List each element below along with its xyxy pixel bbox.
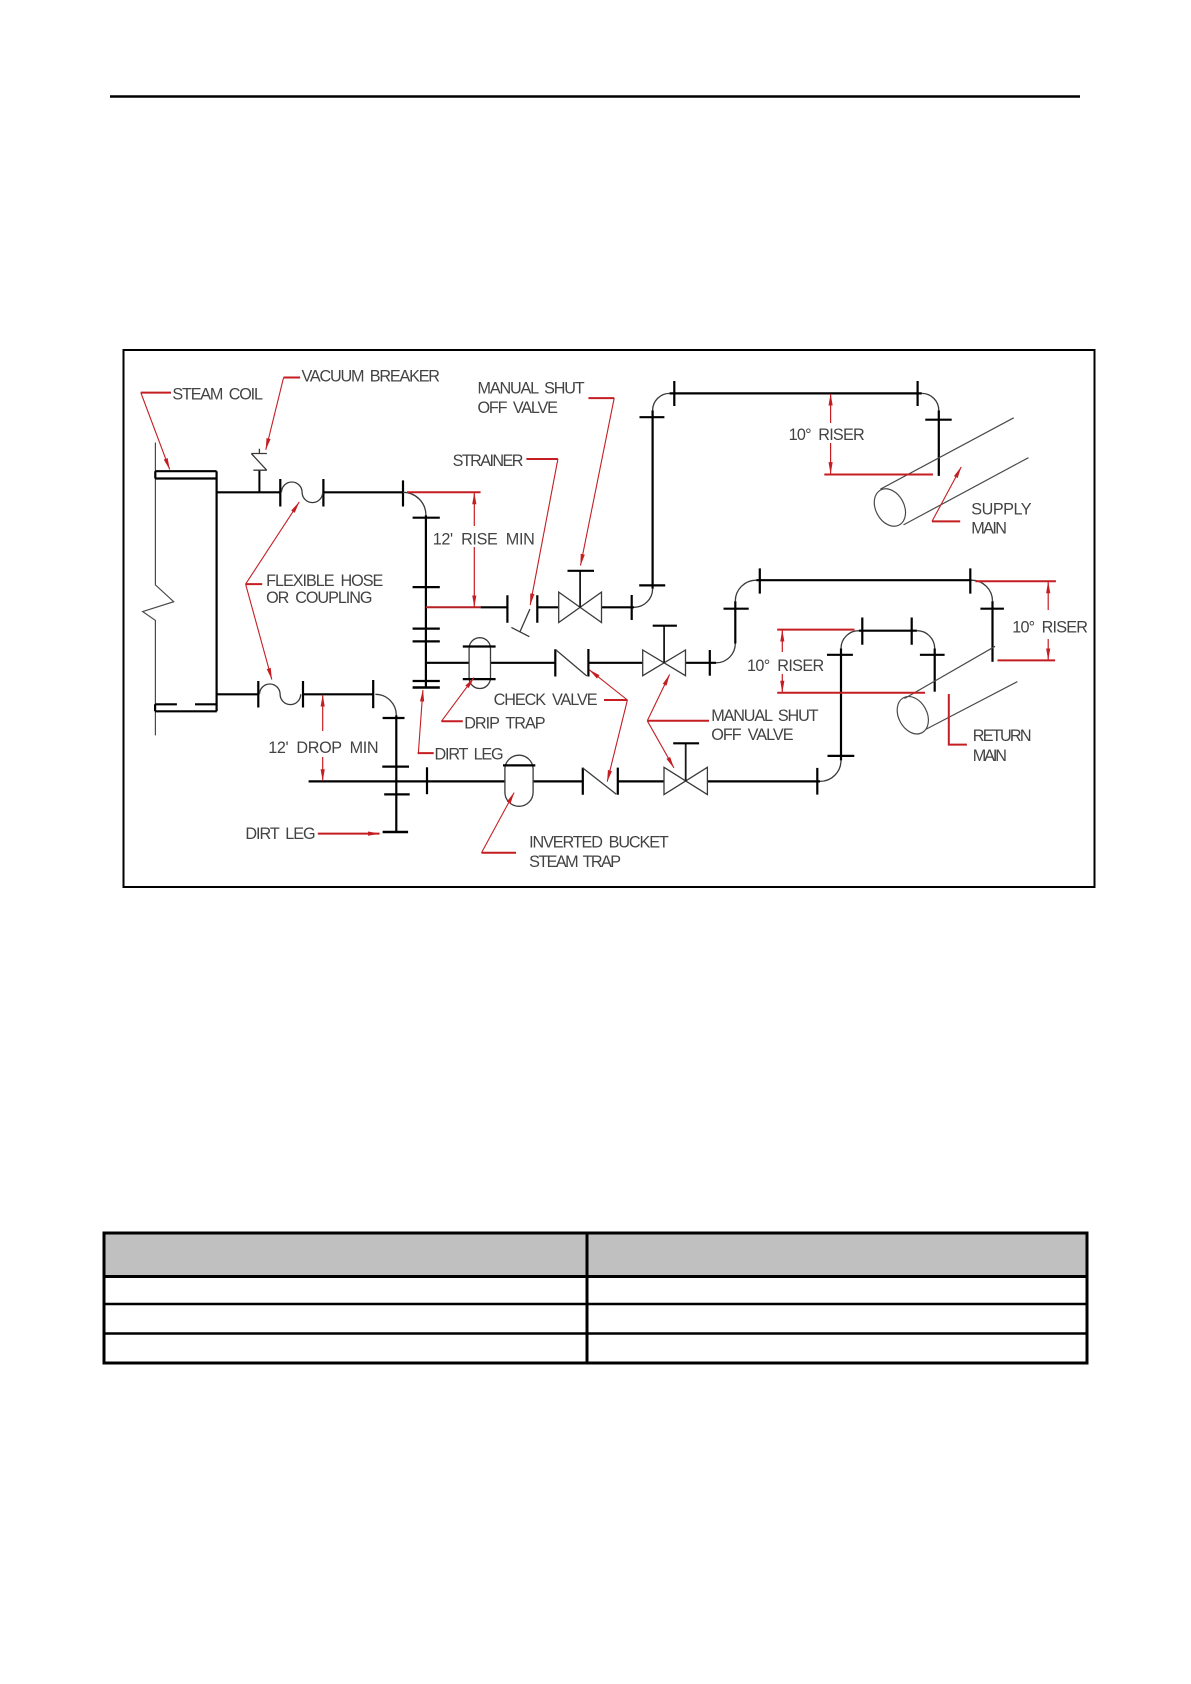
- leader dirt leg middle: [418, 690, 434, 753]
- ticks on bridge top: [862, 618, 911, 645]
- tick before lower right elbow: [372, 680, 374, 708]
- inverted bucket steam trap body: [505, 755, 533, 806]
- svg-text:OFF VALVE: OFF VALVE: [711, 726, 793, 744]
- manual shut off valve 2 body: [643, 650, 686, 676]
- svg-text:MAIN: MAIN: [973, 747, 1007, 765]
- leader dirt leg bottom: [318, 833, 380, 835]
- dimension 12in drop min: [322, 695, 324, 781]
- flexible hose lower ticks: [258, 681, 303, 708]
- dimension 12in rise min: [407, 492, 481, 607]
- svg-text:DIRT LEG: DIRT LEG: [435, 745, 504, 763]
- supply main cylinder: [868, 418, 1028, 532]
- tick on supply drop: [925, 419, 951, 421]
- return main cylinder: [891, 646, 1017, 739]
- svg-text:MANUAL SHUT: MANUAL SHUT: [478, 380, 585, 398]
- svg-text:10° RISER: 10° RISER: [747, 657, 824, 675]
- ticks on riser x426: [413, 518, 440, 681]
- tick before upper right elbow: [402, 480, 404, 506]
- svg-text:OFF VALVE: OFF VALVE: [478, 399, 559, 417]
- leader manual shut off valve top: [581, 398, 615, 565]
- ticks on drop leg: [382, 718, 409, 794]
- svg-text:10° RISER: 10° RISER: [789, 426, 865, 444]
- elbow short riser to return run: [735, 580, 756, 601]
- manual shut off valve 3 body: [664, 767, 707, 794]
- svg-text:FLEXIBLE HOSE: FLEXIBLE HOSE: [266, 572, 383, 590]
- leader flexible hose: [246, 502, 300, 679]
- svg-text:VACUUM BREAKER: VACUUM BREAKER: [302, 368, 441, 386]
- short riser x735: [734, 601, 736, 643]
- ticks on return top run: [760, 568, 971, 593]
- elbow return run down: [972, 580, 993, 601]
- drip trap ticks: [463, 647, 496, 680]
- flexible hose upper S-curve: [282, 482, 323, 503]
- dimension 10in riser middle: [777, 630, 925, 693]
- leader drip trap: [441, 678, 474, 722]
- leader inverted bucket steam trap: [482, 793, 517, 853]
- elbow top pipe down to riser: [403, 492, 426, 515]
- svg-text:12' RISE MIN: 12' RISE MIN: [433, 530, 535, 548]
- ticks on supply riser: [639, 417, 665, 585]
- tick after valve 2: [709, 650, 711, 676]
- inverted bucket trap tick: [503, 764, 535, 766]
- svg-text:MANUAL SHUT: MANUAL SHUT: [711, 707, 818, 725]
- dirt leg bottom cap: [383, 831, 409, 833]
- manual shut off valve 3 stem: [685, 743, 687, 781]
- manual shut off valve 2 handle: [653, 625, 677, 627]
- svg-text:12' DROP MIN: 12' DROP MIN: [268, 739, 378, 757]
- elbow lower pipe down to drop leg: [375, 694, 396, 715]
- bridge right elbow: [917, 631, 935, 649]
- tick before riser elbow: [631, 595, 633, 620]
- ticks on bridge left riser: [827, 655, 854, 756]
- pipe coil bottom return: [217, 693, 373, 695]
- return top run pipe: [756, 579, 971, 581]
- svg-text:STRAINER: STRAINER: [453, 452, 524, 470]
- check valve 2: [583, 768, 618, 795]
- steam coil right edge: [216, 471, 218, 711]
- drop into return main: [991, 601, 993, 662]
- leader check valve: [589, 670, 627, 782]
- drop into supply main: [938, 410, 940, 476]
- red extension on pipe y607: [426, 606, 481, 608]
- svg-text:CHECK VALVE: CHECK VALVE: [494, 691, 598, 709]
- leader strainer: [526, 459, 558, 605]
- svg-text:STEAM COIL: STEAM COIL: [172, 385, 263, 403]
- condensate pipe y663: [426, 662, 716, 664]
- elbow pipe y607 up to riser x652: [634, 589, 653, 608]
- tick on bottom pipe at x427: [426, 767, 428, 794]
- manual shut off valve 2 stem: [663, 626, 665, 663]
- pipe coil top supply: [217, 491, 403, 493]
- bridge left elbow: [841, 631, 859, 649]
- leader vacuum breaker: [266, 378, 300, 450]
- svg-text:SUPPLY: SUPPLY: [971, 500, 1031, 518]
- manual shut off valve 1 stem: [579, 571, 581, 608]
- elbow bottom pipe up: [820, 760, 841, 781]
- riser pipe x426 (12in rise): [425, 515, 427, 687]
- leader return main: [949, 694, 967, 745]
- steam coil top cap: [155, 471, 216, 478]
- leader steam coil: [141, 393, 171, 470]
- elbow top run down: [922, 393, 939, 410]
- leader supply main: [932, 467, 961, 521]
- dirt leg cap below drip line: [413, 686, 440, 688]
- steam coil left break line: [143, 443, 174, 736]
- leader manual shut off valve middle: [647, 675, 709, 768]
- supply riser x652: [651, 410, 653, 588]
- condensate bottom pipe y781: [309, 780, 820, 782]
- manual shut off valve 1 body: [559, 592, 602, 622]
- table row line 1: [104, 1303, 1087, 1305]
- bridge top pipe: [859, 630, 917, 632]
- diagram frame: [124, 350, 1095, 887]
- manual shut off valve 1 handle: [568, 570, 595, 572]
- steam inlet pipe y607: [481, 606, 634, 608]
- svg-text:STEAM TRAP: STEAM TRAP: [529, 853, 621, 871]
- elbow riser to top run: [653, 393, 670, 410]
- tick on short riser: [724, 608, 749, 610]
- table header separator line: [104, 1275, 1087, 1278]
- header rule: [110, 95, 1080, 98]
- flexible hose lower S-curve: [260, 684, 301, 705]
- svg-text:INVERTED BUCKET: INVERTED BUCKET: [529, 834, 669, 852]
- table row line 2: [104, 1332, 1087, 1334]
- manual shut off valve 3 handle: [673, 742, 699, 744]
- strainer flange ticks: [507, 595, 537, 623]
- drop leg vertical x396: [395, 715, 397, 832]
- dimension 10in riser right: [975, 581, 1056, 660]
- svg-text:OR COUPLING: OR COUPLING: [266, 589, 372, 607]
- svg-text:MAIN: MAIN: [971, 519, 1007, 537]
- check valve 1: [555, 649, 588, 677]
- flexible hose upper ticks: [280, 479, 323, 507]
- vacuum breaker: [251, 449, 267, 493]
- table outer border: [104, 1233, 1087, 1363]
- strainer: [511, 609, 530, 637]
- ticks on top run: [674, 381, 917, 406]
- bridge right drop into return main: [934, 649, 936, 692]
- top run pipe to supply main: [670, 392, 922, 394]
- elbow y663 up: [716, 644, 735, 663]
- steam coil bottom cap: [155, 704, 217, 711]
- svg-text:DRIP TRAP: DRIP TRAP: [464, 715, 545, 733]
- tick on return drop: [980, 608, 1004, 610]
- bridge left riser x841: [840, 649, 842, 761]
- drip trap body: [469, 638, 490, 689]
- tick on bridge right drop: [920, 654, 945, 656]
- svg-text:10° RISER: 10° RISER: [1012, 618, 1088, 636]
- dimension 10in riser top: [824, 394, 933, 475]
- table column divider: [586, 1233, 589, 1363]
- svg-text:DIRT LEG: DIRT LEG: [245, 825, 315, 843]
- table header gray row: [104, 1233, 1087, 1275]
- tick before bottom right elbow: [816, 768, 818, 795]
- svg-text:RETURN: RETURN: [973, 727, 1032, 745]
